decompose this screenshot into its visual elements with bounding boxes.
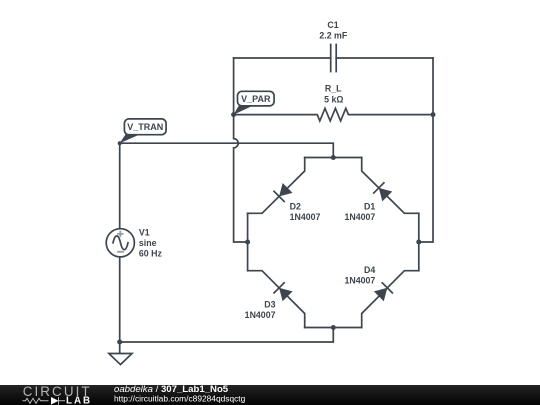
svg-text:sine: sine (139, 238, 157, 248)
V1 plus minus (117, 231, 124, 252)
svg-text:D3: D3 (264, 299, 275, 309)
svg-text:1N4007: 1N4007 (344, 212, 375, 222)
svg-text:V_TRAN: V_TRAN (127, 122, 163, 132)
bridge: right edge (418, 213, 420, 270)
svg-text:60 Hz: 60 Hz (139, 249, 163, 259)
capacitor C1 (331, 45, 337, 72)
wire: bottom wire (120, 328, 334, 343)
node: right node dot (416, 240, 421, 245)
resistor R_L (234, 108, 433, 121)
svg-text:R_L: R_L (325, 83, 342, 93)
svg-text:http://circuitlab.com/c89284qd: http://circuitlab.com/c89284qdsqctg (114, 394, 246, 404)
wire: C1 top wire left (234, 57, 331, 59)
bridge: bottom-left corner + D3 diagonal (248, 271, 305, 328)
ground (109, 342, 132, 365)
wire: V_TRAN horizontal (120, 143, 334, 157)
svg-text:5 kΩ: 5 kΩ (324, 94, 343, 104)
node: ground junction dot (117, 340, 122, 345)
svg-text:LAB: LAB (66, 396, 92, 405)
svg-text:1N4007: 1N4007 (290, 212, 321, 222)
svg-text:2.2 mF: 2.2 mF (319, 31, 347, 41)
net flag V_TRAN (120, 119, 166, 143)
bridge: bottom-right corner + D4 diagonal (362, 271, 419, 328)
diode D2 (273, 183, 292, 202)
node: V_PAR junction dot (231, 112, 236, 117)
svg-text:D1: D1 (364, 201, 375, 211)
bridge: top edge (305, 157, 362, 159)
node: R_L right junction dot (431, 112, 436, 117)
wire: C1 top wire right (336, 57, 433, 59)
wire: right rail (419, 58, 433, 242)
diode D1 (373, 182, 392, 201)
voltage source V1 (106, 229, 134, 257)
diode D4 (374, 282, 393, 301)
wire: V1 bottom lead (119, 257, 121, 342)
svg-text:D2: D2 (290, 201, 301, 211)
bridge: top-right corner + D1 diagonal (362, 158, 419, 214)
svg-text:V1: V1 (139, 227, 150, 237)
bridge: left edge (247, 213, 249, 270)
bridge: bottom edge (305, 327, 362, 329)
svg-text:D4: D4 (364, 265, 375, 275)
svg-text:V_PAR: V_PAR (241, 94, 271, 104)
node: top node dot (331, 155, 336, 160)
svg-text:1N4007: 1N4007 (245, 310, 276, 320)
node: bottom node dot (331, 325, 336, 330)
logo circuit glyph (23, 397, 66, 405)
svg-text:C1: C1 (327, 20, 338, 30)
wire: left rail with hop (234, 58, 248, 242)
node: left node dot (245, 240, 250, 245)
logo bar (0, 384, 540, 405)
net flag V_PAR (234, 91, 275, 114)
node: V_TRAN corner dot (118, 141, 122, 145)
wire: V1 top lead (119, 143, 121, 229)
bridge: top-left corner + D2 diagonal (248, 158, 305, 214)
svg-text:1N4007: 1N4007 (344, 275, 375, 285)
diode D3 (273, 282, 292, 301)
